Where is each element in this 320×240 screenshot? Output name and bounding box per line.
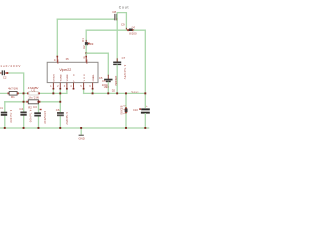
zener branch	[125, 93, 128, 128]
svg-text:C2: C2	[3, 76, 7, 80]
svg-text:8/200: 8/200	[129, 32, 137, 36]
junction diode-W8	[85, 52, 87, 54]
svg-text:C7: C7	[122, 56, 126, 60]
junction pin1 on mid wire	[52, 92, 54, 94]
svg-text:DRAIN: DRAIN	[85, 59, 88, 64]
svg-text:4.7uF/25V: 4.7uF/25V	[65, 112, 69, 125]
big cap small red left	[139, 108, 141, 110]
wire W6 horizontal from diode to series cap	[86, 29, 127, 31]
capacitor C8 Cout plates	[115, 14, 117, 19]
svg-text:D1: D1	[81, 38, 85, 42]
rail junctions	[4, 127, 6, 129]
svg-text:Cout: Cout	[119, 5, 129, 9]
capacitor C5 (polarized)	[104, 75, 112, 93]
cap1 plates	[1, 112, 7, 116]
svg-text:R1: R1	[11, 95, 15, 99]
bottom rail	[0, 127, 149, 129]
wire jumper up-over from Cout junction	[117, 13, 126, 29]
svg-text:100nF/63: 100nF/63	[114, 76, 118, 87]
input cap branch wire	[8, 73, 24, 111]
svg-text:(+): (+)	[132, 25, 136, 29]
svg-text:C9: C9	[121, 22, 125, 26]
diode D1 body	[85, 40, 90, 45]
junction input cap branch on mid wire	[23, 92, 25, 94]
svg-text:C4: C4	[19, 107, 23, 111]
svg-text:4.7u/400: 4.7u/400	[9, 110, 13, 123]
svg-text:SOURCE: SOURCE	[67, 74, 69, 82]
cap2 chain below plates	[23, 116, 25, 128]
pin2/cap4 chain vertical	[59, 93, 61, 112]
svg-text:U2: U2	[82, 45, 86, 49]
junction cap2 on branch/bottom wire	[23, 101, 25, 103]
svg-text:U$3: U$3	[104, 85, 109, 89]
junction at Cout right	[116, 18, 118, 20]
junction squares	[4, 92, 146, 128]
lead maroon into series cap	[125, 28, 127, 30]
svg-text:D9: D9	[90, 42, 94, 46]
capacitor C7 plates	[113, 59, 121, 94]
svg-text:1k/2W: 1k/2W	[28, 95, 39, 99]
cap1 chain vertical	[4, 102, 6, 112]
input capacitor C2	[0, 70, 8, 75]
wire W8 to cap C5	[86, 53, 108, 75]
pin drops green	[52, 89, 54, 93]
big electrolytic cap lead	[141, 93, 150, 128]
bottom pin numbers	[50, 86, 91, 88]
resistor R1 inline on mid wire	[8, 92, 19, 96]
svg-text:U1: U1	[32, 89, 36, 93]
wire below diode to pin8	[85, 45, 87, 56]
svg-text:4k7/1W: 4k7/1W	[8, 87, 18, 91]
svg-text:VDD: VDD	[84, 74, 86, 82]
cap4 plates	[57, 112, 64, 116]
series cap C9 body	[127, 29, 134, 32]
svg-text:4.7u/400: 4.7u/400	[29, 110, 33, 123]
junction pin2 on mid wire	[59, 92, 61, 94]
wire W3 vertical down to cap C7	[116, 19, 118, 61]
svg-text:C6: C6	[56, 108, 60, 112]
svg-text:C5: C5	[99, 76, 103, 80]
wire W10 to right edge corner	[134, 30, 145, 93]
svg-text:DRAIN: DRAIN	[53, 74, 56, 82]
svg-text:Vout: Vout	[131, 90, 138, 94]
cap3 chain	[38, 102, 40, 112]
junction zener on mid wire	[125, 92, 127, 94]
svg-text:Viper22: Viper22	[59, 68, 71, 72]
junction pin6 on mid wire	[92, 92, 94, 94]
IC top pin 8	[85, 56, 87, 63]
resistor R2 inline on bottom wire	[26, 100, 40, 104]
cap2 plates	[20, 112, 26, 116]
mid wire segment A	[0, 92, 28, 94]
IC box U1	[47, 62, 98, 82]
junction corner pin2 chain bottom wire	[59, 101, 61, 103]
junction capC5 on mid wire	[107, 92, 109, 94]
svg-text:100n/630: 100n/630	[43, 111, 47, 124]
junction cap3 on bottom wire	[38, 101, 40, 103]
ground stub	[80, 128, 82, 134]
svg-text:C3: C3	[33, 105, 37, 109]
svg-text:CONTROL: CONTROL	[93, 73, 95, 81]
ground symbol	[79, 135, 85, 140]
svg-text:C5: C5	[102, 79, 106, 83]
pin name texts inside box (vertical)	[53, 59, 95, 81]
svg-text:C1: C1	[0, 106, 3, 110]
fuse/pale component inline on mid wire	[27, 92, 40, 95]
cap3 plates	[34, 112, 41, 116]
svg-text:GND: GND	[79, 136, 85, 140]
mid wire segment B	[84, 92, 146, 94]
junction W11 on mid wire end	[144, 92, 146, 94]
svg-text:4.7uF/25V: 4.7uF/25V	[123, 65, 127, 80]
wire W7 diode branch vertical	[85, 30, 87, 40]
junction capC7 on mid wire	[116, 92, 118, 94]
wire top W1	[57, 18, 114, 20]
svg-text:D2: D2	[112, 89, 116, 93]
bottom-left wire	[5, 101, 61, 103]
svg-text:1uF/400V: 1uF/400V	[0, 64, 20, 68]
IC bottom pins stubs and squares	[53, 83, 94, 90]
svg-text:C8: C8	[112, 10, 116, 14]
wire W2 vertical to pin4 top	[56, 19, 58, 56]
svg-text:DRAIN: DRAIN	[57, 59, 60, 64]
svg-text:b5: b5	[66, 57, 69, 61]
svg-text:SOURCE: SOURCE	[61, 74, 63, 82]
svg-text:C10: C10	[133, 108, 138, 112]
IC top pin 4	[57, 56, 59, 63]
